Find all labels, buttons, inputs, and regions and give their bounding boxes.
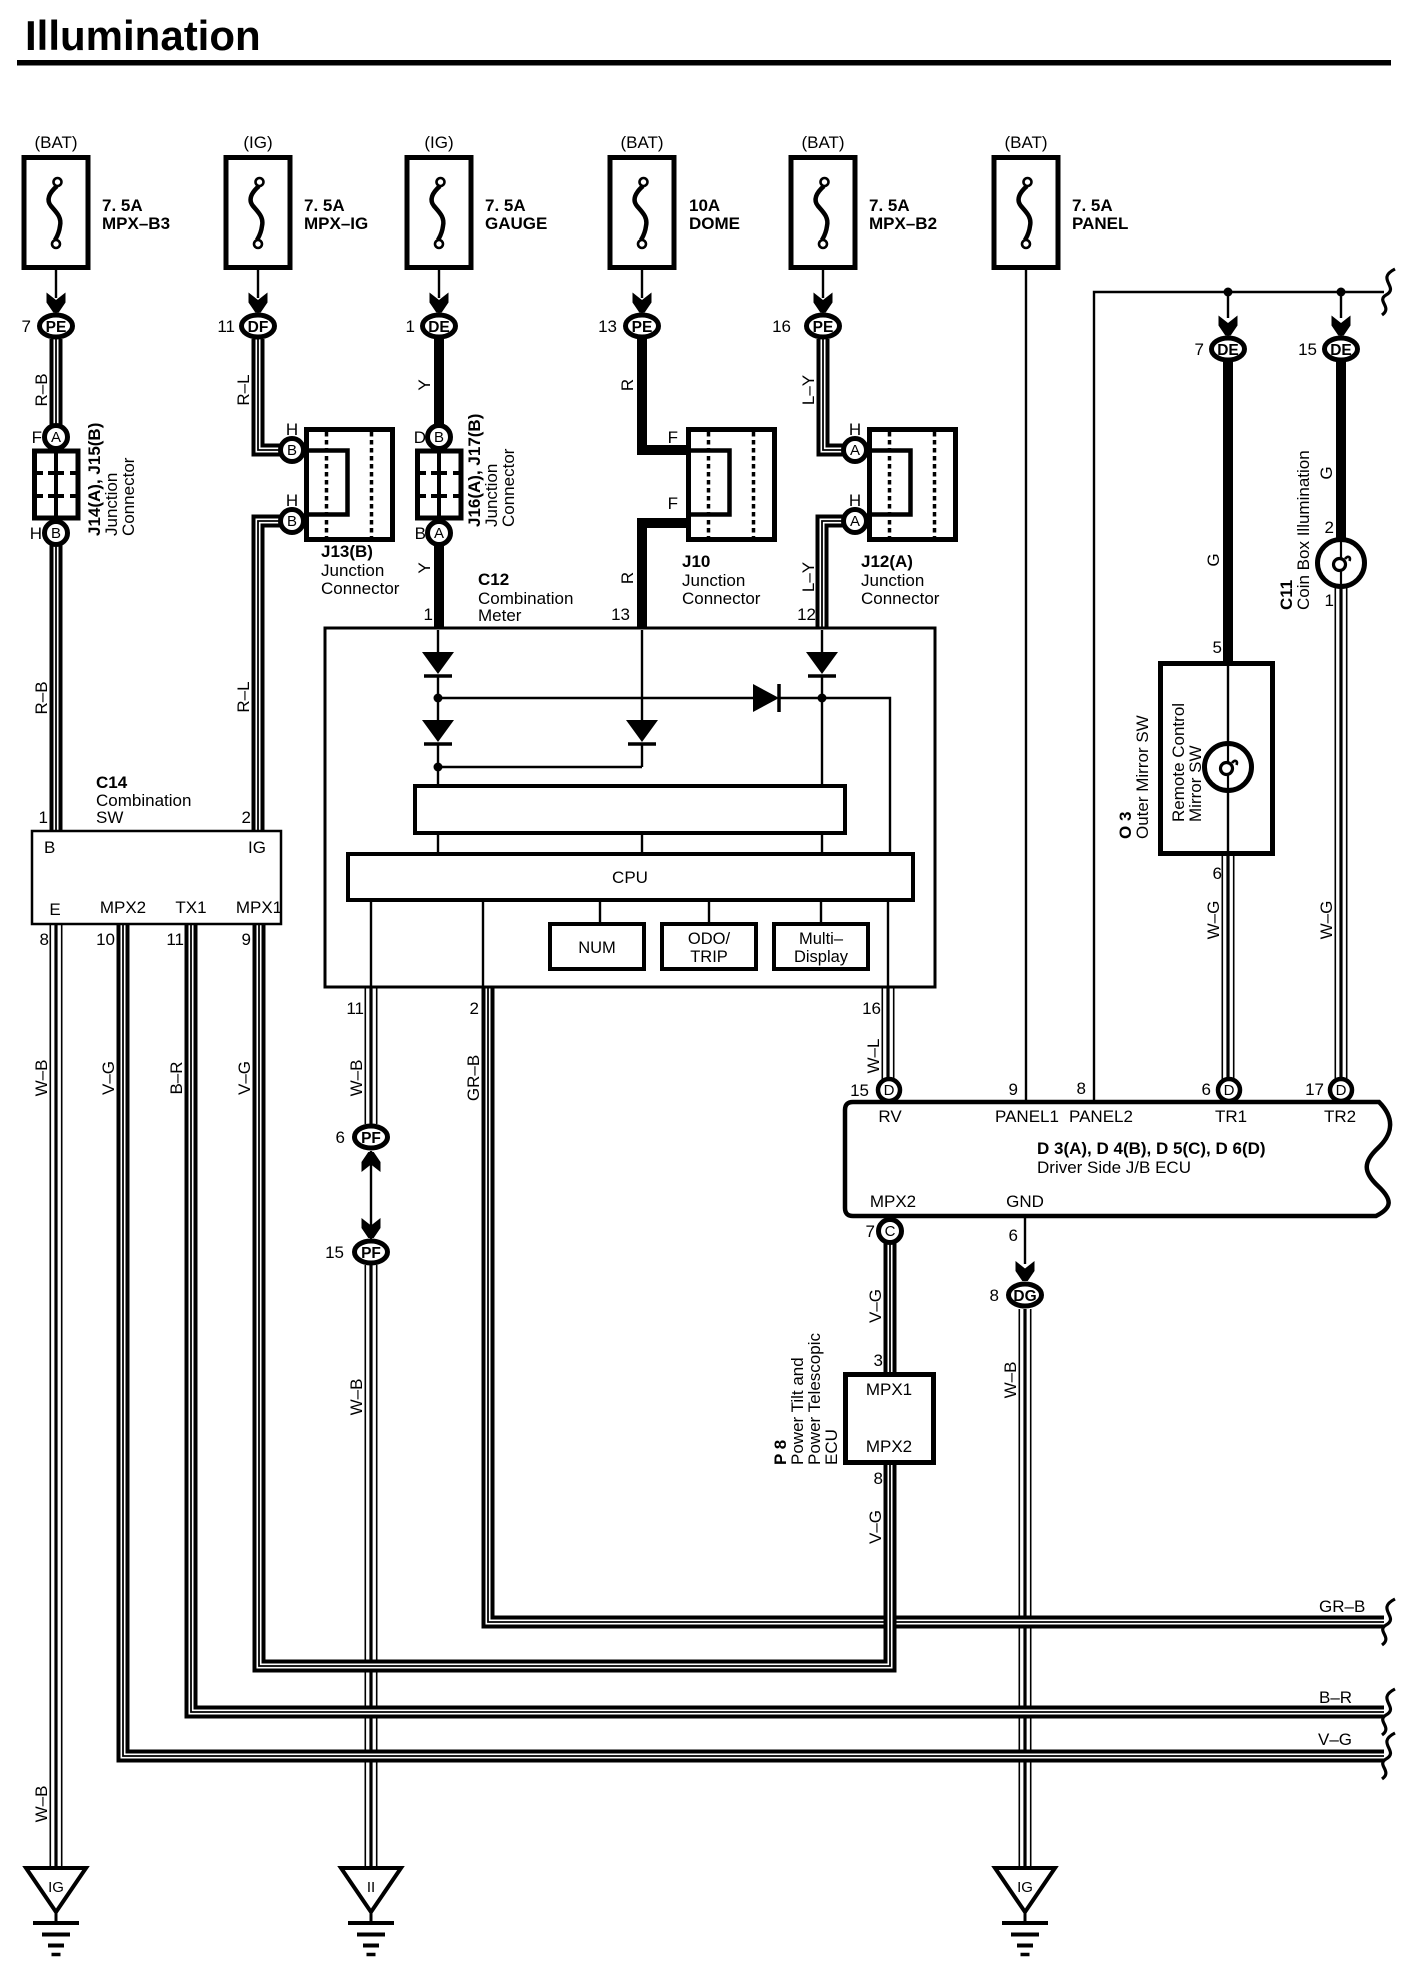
svg-text:A: A: [434, 525, 444, 542]
connector PE 16: [807, 315, 840, 337]
svg-text:7. 5A: 7. 5A: [102, 196, 143, 215]
svg-text:9: 9: [1009, 1080, 1018, 1099]
arrow up into PF 6: [362, 1152, 381, 1172]
svg-text:11: 11: [217, 317, 235, 336]
wire G DE15 to C11 pin 2: [1336, 362, 1346, 542]
svg-text:Connector: Connector: [861, 589, 940, 608]
C12 combination meter box: [325, 628, 935, 987]
svg-text:Illumination: Illumination: [25, 12, 261, 59]
svg-text:5: 5: [1213, 638, 1222, 657]
svg-text:8: 8: [1077, 1079, 1086, 1098]
connector DG: [1009, 1284, 1042, 1306]
svg-text:(BAT): (BAT): [620, 133, 663, 152]
svg-text:Outer Mirror SW: Outer Mirror SW: [1133, 715, 1152, 839]
svg-text:MPX1: MPX1: [236, 898, 282, 917]
svg-text:H: H: [30, 524, 42, 543]
svg-text:15: 15: [850, 1081, 869, 1100]
wire GR-B C12 pin 2 to right edge: [488, 988, 1384, 1622]
svg-text:16: 16: [862, 999, 881, 1018]
svg-text:(IG): (IG): [243, 133, 272, 152]
break squiggle V-G: [1382, 1733, 1395, 1779]
fuse MPX-IG: [226, 158, 290, 268]
svg-text:(BAT): (BAT): [801, 133, 844, 152]
P8 power tilt and telescopic ECU box: [846, 1375, 934, 1463]
diode D2: [422, 720, 454, 744]
wire stub to DE 7: [1227, 292, 1229, 318]
svg-text:(BAT): (BAT): [1004, 133, 1047, 152]
terminal A on J16: [428, 522, 451, 545]
wire ECU GND to arrow: [1024, 1216, 1026, 1264]
svg-text:GAUGE: GAUGE: [485, 214, 547, 233]
svg-text:W–B: W–B: [347, 1379, 366, 1416]
svg-text:B: B: [51, 525, 61, 542]
wire top-right bus to ECU pin 8: [1094, 292, 1384, 1102]
wire fuse2 to arrow: [257, 270, 259, 298]
connector D at ECU TR1: [1218, 1079, 1240, 1101]
svg-text:GR–B: GR–B: [464, 1055, 483, 1101]
svg-text:W–G: W–G: [1317, 901, 1336, 940]
svg-text:Junction: Junction: [321, 561, 384, 580]
svg-text:1: 1: [406, 317, 415, 336]
svg-text:G: G: [1204, 553, 1223, 566]
wire CPU to pin 16: [887, 900, 889, 988]
svg-text:SW: SW: [96, 808, 123, 827]
ground IG left: [26, 1868, 86, 1955]
ground IG right: [995, 1868, 1055, 1955]
svg-text:DE: DE: [1330, 342, 1352, 359]
wire CPU to NUM: [599, 900, 601, 926]
svg-text:15: 15: [325, 1243, 344, 1262]
svg-text:B: B: [287, 513, 297, 530]
svg-text:Connector: Connector: [119, 457, 138, 536]
CPU box: [348, 854, 913, 900]
svg-text:13: 13: [598, 317, 617, 336]
svg-text:Y: Y: [415, 379, 434, 390]
svg-text:Junction: Junction: [682, 571, 745, 590]
svg-text:IG: IG: [48, 1879, 64, 1896]
wire W-G O3 pin 6 to ECU TR1: [1222, 856, 1235, 1080]
svg-text:V–G: V–G: [99, 1061, 118, 1095]
svg-text:DG: DG: [1013, 1288, 1036, 1305]
svg-text:TR1: TR1: [1215, 1107, 1247, 1126]
svg-text:Display: Display: [794, 948, 849, 966]
svg-text:H: H: [849, 491, 861, 510]
svg-text:16: 16: [772, 317, 791, 336]
svg-text:PE: PE: [632, 319, 653, 336]
svg-text:RV: RV: [878, 1107, 902, 1126]
wire D2 to node 3 to lamp unit: [437, 744, 439, 788]
svg-text:D: D: [884, 1082, 895, 1099]
svg-text:J13(B): J13(B): [321, 542, 373, 561]
svg-text:A: A: [850, 442, 860, 459]
svg-text:6: 6: [1213, 864, 1222, 883]
fuse DOME: [610, 158, 674, 268]
wire C12 pin 13 internal: [641, 630, 643, 722]
svg-text:Meter: Meter: [478, 606, 522, 625]
wire W-B DG8 to ground IG: [1019, 1309, 1032, 1868]
O3 outer mirror switch box: [1161, 664, 1273, 854]
svg-text:W–L: W–L: [864, 1039, 883, 1074]
wire W-B PF15 to ground II: [365, 1265, 378, 1868]
wire CPU to ODO/TRIP: [708, 900, 710, 926]
svg-text:PE: PE: [813, 319, 834, 336]
break squiggle GR-B: [1382, 1599, 1395, 1645]
arrow into PE 16: [814, 293, 833, 313]
svg-text:D 3(A), D 4(B), D 5(C), D 6(D): D 3(A), D 4(B), D 5(C), D 6(D): [1037, 1139, 1266, 1158]
diode D4: [753, 684, 779, 712]
wire fuse5 to arrow: [822, 270, 824, 298]
wire W-B C14 pin 8 to ground IG: [50, 924, 63, 1868]
connector PE 7: [40, 315, 73, 337]
terminal B upper on J13: [281, 439, 304, 462]
svg-text:Junction: Junction: [861, 571, 924, 590]
wire R-B J14 B to C14 pin 1: [50, 543, 63, 832]
title rule: [17, 60, 1391, 66]
svg-text:W–B: W–B: [32, 1786, 51, 1823]
svg-text:PF: PF: [361, 1245, 381, 1262]
svg-text:ECU: ECU: [822, 1429, 841, 1465]
wire CPU to pin 2: [482, 900, 484, 988]
svg-text:2: 2: [470, 999, 479, 1018]
svg-text:F: F: [668, 428, 678, 447]
svg-text:B: B: [415, 524, 426, 543]
wire PANEL fuse to ECU pin 9: [1025, 270, 1027, 1102]
break squiggle top right: [1382, 269, 1395, 315]
svg-text:PANEL1: PANEL1: [995, 1107, 1059, 1126]
connector PE 13: [626, 315, 659, 337]
svg-text:Multi–: Multi–: [799, 930, 844, 948]
arrow into DE 1: [430, 293, 449, 313]
svg-text:H: H: [849, 420, 861, 439]
svg-text:12: 12: [797, 605, 816, 624]
wire C12 pin 12 internal: [821, 630, 823, 654]
connector D at ECU TR2: [1330, 1079, 1352, 1101]
svg-text:DE: DE: [1217, 342, 1239, 359]
svg-text:CPU: CPU: [612, 868, 648, 887]
arrow into PE 7: [47, 293, 66, 313]
fuse MPX-B2: [791, 158, 855, 268]
node on bus at TR1: [1224, 288, 1233, 297]
svg-text:Coin Box Illumination: Coin Box Illumination: [1294, 450, 1313, 610]
svg-text:7: 7: [1195, 340, 1204, 359]
svg-text:7. 5A: 7. 5A: [869, 196, 910, 215]
svg-text:7: 7: [22, 317, 31, 336]
svg-text:DE: DE: [428, 319, 450, 336]
wire R-B PE7 to J14 A: [50, 339, 63, 427]
svg-text:MPX1: MPX1: [866, 1380, 912, 1399]
wire D4 to node 2 and corner: [779, 698, 890, 856]
arrow down into PF 15: [362, 1218, 381, 1238]
svg-text:MPX2: MPX2: [866, 1437, 912, 1456]
wire R J10 F to C12 pin 13: [642, 523, 686, 629]
junction connector J14(A) J15(B): [35, 451, 79, 518]
svg-text:GR–B: GR–B: [1319, 1597, 1365, 1616]
node on bus at TR2: [1337, 288, 1346, 297]
svg-text:3: 3: [874, 1351, 883, 1370]
svg-text:C: C: [885, 1223, 896, 1240]
svg-text:DF: DF: [248, 319, 269, 336]
svg-text:Y: Y: [415, 562, 434, 573]
wire C12 pin 1 internal: [437, 630, 439, 654]
svg-text:10: 10: [96, 930, 115, 949]
svg-text:TX1: TX1: [175, 898, 206, 917]
svg-text:PANEL2: PANEL2: [1069, 1107, 1133, 1126]
svg-text:E: E: [49, 900, 60, 919]
svg-text:W–G: W–G: [1204, 901, 1223, 940]
node 3: [434, 763, 443, 772]
connector DE 1: [423, 315, 456, 337]
wire L-Y J12 A to C12 pin 12: [822, 521, 844, 629]
svg-text:MPX2: MPX2: [870, 1192, 916, 1211]
junction connector J13(B): [307, 430, 393, 540]
terminal A lower on J12: [844, 510, 867, 533]
svg-text:R–L: R–L: [234, 681, 253, 712]
fuse GAUGE: [407, 158, 471, 268]
svg-text:6: 6: [1009, 1226, 1018, 1245]
node 2: [818, 694, 827, 703]
Multi-Display box: [774, 924, 868, 969]
svg-text:ODO/: ODO/: [688, 930, 731, 948]
wire node1 row to diode D4: [438, 697, 754, 699]
svg-text:9: 9: [242, 930, 251, 949]
wire Y DE1 to J16 B: [434, 339, 444, 427]
svg-text:G: G: [1317, 466, 1336, 479]
svg-text:A: A: [51, 429, 61, 446]
svg-text:MPX2: MPX2: [100, 898, 146, 917]
wire W-L C12 pin 16 to ECU RV: [882, 988, 895, 1080]
svg-text:II: II: [367, 1879, 375, 1896]
junction connector J12(A): [870, 430, 956, 540]
svg-text:GND: GND: [1006, 1192, 1044, 1211]
svg-text:Mirror SW: Mirror SW: [1186, 746, 1205, 822]
svg-text:C14: C14: [96, 773, 128, 792]
wire V-G C14 pin 10 to right edge: [123, 924, 1384, 1756]
svg-text:PF: PF: [361, 1130, 381, 1147]
svg-text:V–G: V–G: [866, 1510, 885, 1544]
svg-text:H: H: [286, 491, 298, 510]
svg-text:B: B: [287, 442, 297, 459]
svg-text:R: R: [618, 379, 637, 391]
svg-text:6: 6: [1202, 1080, 1211, 1099]
arrow at ECU GND output: [1016, 1261, 1035, 1281]
wire R-L DF11 to J13 B: [258, 339, 281, 450]
arrow into DE 7: [1219, 316, 1238, 336]
svg-text:V–G: V–G: [235, 1061, 254, 1095]
svg-text:10A: 10A: [689, 196, 720, 215]
svg-text:R: R: [618, 572, 637, 584]
arrow into DF 11: [249, 293, 268, 313]
node 1: [434, 694, 443, 703]
svg-text:V–G: V–G: [1318, 1730, 1352, 1749]
fuse MPX-B3: [24, 158, 88, 268]
svg-text:MPX–B3: MPX–B3: [102, 214, 170, 233]
svg-text:A: A: [850, 513, 860, 530]
svg-text:D: D: [1224, 1082, 1235, 1099]
svg-text:F: F: [32, 428, 42, 447]
junction connector J10: [689, 430, 775, 540]
terminal B on J16: [428, 426, 451, 449]
wire B-R C14 pin 11 to right edge: [191, 924, 1384, 1712]
svg-text:TR2: TR2: [1324, 1107, 1356, 1126]
svg-text:Connector: Connector: [682, 589, 761, 608]
svg-text:8: 8: [40, 930, 49, 949]
svg-text:R–B: R–B: [32, 681, 51, 714]
illumination lamp unit box: [415, 786, 845, 833]
svg-text:R–B: R–B: [32, 373, 51, 406]
connector PF 6: [355, 1126, 388, 1148]
ground II: [341, 1868, 401, 1955]
connector DE 7: [1212, 338, 1245, 360]
svg-text:(BAT): (BAT): [34, 133, 77, 152]
svg-text:Connector: Connector: [321, 579, 400, 598]
svg-text:NUM: NUM: [578, 939, 616, 957]
svg-text:MPX–B2: MPX–B2: [869, 214, 937, 233]
diode D1: [422, 652, 454, 676]
wire V-G ECU MPX2 to P8 pin 3: [884, 1242, 897, 1373]
svg-text:Connector: Connector: [499, 448, 518, 527]
wire lamp to CPU stub 3: [821, 833, 823, 856]
wire fuse3 to arrow: [438, 270, 440, 298]
svg-text:6: 6: [336, 1128, 345, 1147]
svg-text:11: 11: [166, 930, 184, 949]
wire CPU to Multi-Display: [820, 900, 822, 926]
svg-text:8: 8: [990, 1286, 999, 1305]
svg-text:(IG): (IG): [424, 133, 453, 152]
svg-text:11: 11: [346, 999, 364, 1018]
svg-text:Driver Side J/B ECU: Driver Side J/B ECU: [1037, 1158, 1191, 1177]
diode D3: [806, 652, 838, 676]
svg-text:1: 1: [39, 808, 48, 827]
svg-text:L–Y: L–Y: [799, 562, 818, 592]
bulb remote control mirror SW illumination: [1205, 744, 1252, 791]
svg-text:W–B: W–B: [32, 1060, 51, 1097]
junction connector J16(A) J17(B): [418, 451, 462, 518]
svg-text:D: D: [414, 428, 426, 447]
wire L-Y PE16 to J12 A: [823, 339, 844, 450]
terminal A upper on J12: [844, 439, 867, 462]
svg-text:2: 2: [242, 808, 251, 827]
terminal B lower on J13: [281, 510, 304, 533]
wire lamp to CPU stub 1: [437, 833, 439, 856]
ODO/TRIP box: [662, 924, 756, 969]
svg-text:B–R: B–R: [1319, 1688, 1352, 1707]
wire D5 to row: [641, 744, 643, 767]
svg-text:D: D: [1336, 1082, 1347, 1099]
svg-text:DOME: DOME: [689, 214, 740, 233]
fuse PANEL: [994, 158, 1058, 268]
svg-text:1: 1: [424, 605, 433, 624]
svg-text:IG: IG: [1017, 1879, 1033, 1896]
svg-text:H: H: [286, 420, 298, 439]
svg-text:IG: IG: [248, 838, 266, 857]
wire stub to DE 15: [1340, 292, 1342, 318]
svg-text:7. 5A: 7. 5A: [304, 196, 345, 215]
terminal B on J14: [45, 522, 68, 545]
svg-text:PE: PE: [46, 319, 67, 336]
svg-text:8: 8: [874, 1469, 883, 1488]
svg-text:W–B: W–B: [347, 1060, 366, 1097]
wire D1 to node: [437, 676, 439, 722]
svg-text:C12: C12: [478, 570, 509, 589]
C14 combination switch box: [32, 831, 281, 924]
arrow into PE 13: [633, 293, 652, 313]
wire fuse4 to arrow: [641, 270, 643, 298]
svg-text:7. 5A: 7. 5A: [1072, 196, 1113, 215]
wire lamp to CPU stub 2: [641, 833, 643, 856]
svg-text:B: B: [434, 429, 444, 446]
wire G DE7 to O3 pin 5: [1223, 362, 1233, 663]
wire CPU to pin 11: [370, 900, 372, 988]
wire W-G C11 pin 1 to ECU TR2: [1335, 585, 1348, 1080]
wire R PE13 to J10 F: [642, 339, 686, 450]
wire inside C11 bulb: [1340, 541, 1342, 586]
wire Y J16 A to C12 pin 1: [434, 543, 444, 629]
svg-text:17: 17: [1305, 1080, 1324, 1099]
connector C at ECU MPX2: [879, 1220, 902, 1243]
svg-text:B: B: [44, 838, 55, 857]
break squiggle B-R: [1382, 1689, 1395, 1735]
svg-text:F: F: [668, 494, 678, 513]
wire D3 to lamp unit: [821, 676, 823, 788]
wire node3 row to pin13 branch: [438, 766, 642, 768]
Driver side J/B ECU box: [845, 1102, 1390, 1216]
wire W-B C12 pin 11 to PF6: [365, 988, 378, 1124]
bulb C11 coin box illumination: [1318, 540, 1365, 587]
svg-text:L–Y: L–Y: [799, 375, 818, 405]
wire V-G C14 pin 9 to P8 pin 8: [259, 924, 890, 1666]
connector DE 15: [1325, 338, 1358, 360]
terminal A on J14: [45, 426, 68, 449]
svg-text:PANEL: PANEL: [1072, 214, 1128, 233]
wire PF6 to PF15 link: [370, 1151, 372, 1239]
connector PF 15: [355, 1241, 388, 1263]
svg-text:R–L: R–L: [234, 374, 253, 405]
svg-text:J12(A): J12(A): [861, 552, 913, 571]
svg-text:7: 7: [866, 1222, 875, 1241]
wire inside O3: [1227, 663, 1229, 854]
svg-text:7. 5A: 7. 5A: [485, 196, 526, 215]
connector DF 11: [242, 315, 275, 337]
diode D5: [626, 720, 658, 744]
svg-text:2: 2: [1325, 518, 1334, 537]
connector D at ECU RV: [878, 1079, 900, 1101]
wire fuse1 to arrow: [55, 270, 57, 298]
svg-text:J10: J10: [682, 552, 710, 571]
svg-text:V–G: V–G: [866, 1289, 885, 1323]
wire R-L J13 B to C14 pin 2: [258, 521, 281, 832]
svg-text:1: 1: [1325, 591, 1334, 610]
svg-text:TRIP: TRIP: [690, 948, 728, 966]
svg-text:MPX–IG: MPX–IG: [304, 214, 368, 233]
arrow into DE 15: [1332, 316, 1351, 336]
svg-text:13: 13: [611, 605, 630, 624]
svg-text:15: 15: [1298, 340, 1317, 359]
svg-text:W–B: W–B: [1001, 1362, 1020, 1399]
NUM box: [550, 924, 644, 969]
svg-text:B–R: B–R: [167, 1061, 186, 1094]
